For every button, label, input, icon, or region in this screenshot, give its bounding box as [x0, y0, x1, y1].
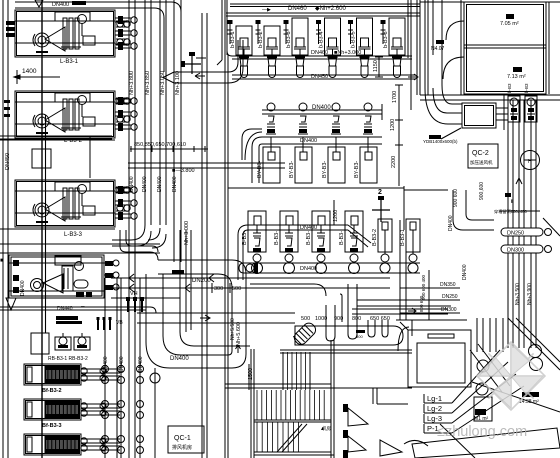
svg-text:≤zhulong.com: ≤zhulong.com — [437, 424, 527, 440]
svg-text:DN400: DN400 — [142, 176, 148, 192]
svg-text:900 600 400: 900 600 400 — [421, 274, 426, 300]
svg-text:7.13 m²: 7.13 m² — [507, 74, 526, 80]
svg-text:DN300: DN300 — [507, 248, 524, 254]
svg-text:B-B3-: B-B3- — [306, 231, 312, 245]
svg-text:B-B3-1: B-B3-1 — [400, 229, 406, 246]
svg-text:Bf-B3-3: Bf-B3-3 — [42, 423, 62, 429]
svg-text:■—3.800: ■—3.800 — [172, 168, 195, 174]
svg-text:╹: ╹ — [510, 199, 514, 207]
svg-text:Nh+3.500: Nh+3.500 — [515, 283, 521, 305]
svg-text:N4.07: N4.07 — [431, 46, 445, 52]
svg-text:b-B3: b-B3 — [524, 83, 529, 93]
svg-text:DN400: DN400 — [300, 138, 317, 144]
svg-text:1400: 1400 — [22, 68, 37, 75]
svg-text:DN350: DN350 — [440, 282, 456, 288]
svg-text:900: 900 — [334, 316, 343, 322]
svg-text:DN400: DN400 — [300, 266, 317, 272]
svg-text:1150: 1150 — [373, 60, 379, 72]
svg-text:800: 800 — [356, 334, 363, 339]
svg-text:DN400: DN400 — [52, 2, 69, 8]
svg-text:Nh+3.800: Nh+3.800 — [129, 71, 135, 95]
svg-text:DN460: DN460 — [311, 50, 328, 56]
svg-text:机房: 机房 — [322, 425, 331, 432]
svg-text:BY-B3-: BY-B3- — [289, 161, 295, 178]
svg-text:Lg-2: Lg-2 — [427, 404, 442, 413]
svg-text:DN400: DN400 — [300, 225, 317, 231]
svg-text:DN400: DN400 — [157, 176, 163, 192]
svg-text:排风机房: 排风机房 — [172, 444, 192, 451]
svg-text:2: 2 — [378, 189, 382, 196]
svg-text:DN400: DN400 — [20, 280, 26, 296]
svg-text:7.05 m²: 7.05 m² — [500, 21, 519, 27]
svg-text:2200: 2200 — [391, 156, 397, 168]
svg-text:DN400: DN400 — [172, 176, 178, 192]
svg-text:DN200: DN200 — [192, 278, 211, 284]
svg-text:BY-B3-: BY-B3- — [322, 161, 328, 178]
svg-text:L-B3-1: L-B3-1 — [60, 59, 79, 65]
svg-text:DN450: DN450 — [311, 74, 328, 80]
svg-text:800: 800 — [352, 316, 361, 322]
svg-text:DN400: DN400 — [448, 215, 454, 231]
svg-text:DN400: DN400 — [462, 264, 468, 280]
svg-text:BY-B3-: BY-B3- — [257, 161, 263, 178]
svg-text:900,600: 900,600 — [479, 182, 485, 200]
svg-text:DN300: DN300 — [441, 307, 457, 313]
svg-text:M1 m²: M1 m² — [474, 416, 489, 422]
svg-text:QC-1: QC-1 — [174, 435, 191, 442]
svg-text:Bf-B3-2: Bf-B3-2 — [42, 388, 62, 394]
svg-text:DN250: DN250 — [507, 231, 524, 237]
svg-text:Lg-3: Lg-3 — [427, 414, 442, 423]
svg-text:QC-2: QC-2 — [472, 150, 489, 157]
svg-text:Nh+5.600: Nh+5.600 — [236, 322, 242, 346]
svg-text:1200: 1200 — [333, 210, 339, 222]
svg-text:900 600: 900 600 — [453, 189, 459, 207]
svg-text:L-B3-3: L-B3-3 — [64, 232, 83, 238]
svg-text:500: 500 — [301, 316, 310, 322]
svg-text:650 650: 650 650 — [370, 316, 390, 322]
svg-text:b-B3: b-B3 — [507, 83, 512, 93]
svg-text:YDB1400x600(b): YDB1400x600(b) — [423, 139, 458, 144]
svg-text:B-B3-: B-B3- — [274, 231, 280, 245]
svg-text:Nh+3.050: Nh+3.050 — [160, 71, 166, 95]
svg-text:1000: 1000 — [315, 316, 327, 322]
svg-text:Nh+5.500: Nh+5.500 — [230, 318, 236, 340]
svg-text:Nh+3.900: Nh+3.900 — [527, 283, 533, 305]
svg-text:加压送风机: 加压送风机 — [470, 159, 493, 166]
svg-text:■: ■ — [0, 258, 4, 264]
svg-text:■Nh+3.000: ■Nh+3.000 — [334, 50, 361, 56]
svg-text:DN460: DN460 — [288, 6, 307, 12]
svg-text:Lg-1: Lg-1 — [427, 394, 442, 403]
svg-text:B-B3-2: B-B3-2 — [372, 229, 378, 246]
svg-text:B-B3-: B-B3- — [339, 231, 345, 245]
svg-text:300: 300 — [214, 286, 223, 292]
svg-text:DN450: DN450 — [5, 153, 11, 170]
svg-text:Nh+3.000: Nh+3.000 — [184, 221, 190, 245]
svg-text:1700: 1700 — [392, 91, 398, 103]
svg-text:Nh+3.850: Nh+3.850 — [145, 71, 151, 95]
svg-text:DN400: DN400 — [312, 105, 331, 111]
svg-text:—▶: —▶ — [262, 7, 271, 13]
svg-text:DN250: DN250 — [442, 294, 458, 300]
svg-text:DN440: DN440 — [57, 306, 73, 312]
svg-text:VH: VH — [130, 291, 138, 297]
svg-text:RB-B3-1 RB-B3-2: RB-B3-1 RB-B3-2 — [48, 356, 88, 362]
svg-text:DN400: DN400 — [170, 356, 189, 362]
svg-text:BY-B3-: BY-B3- — [354, 161, 360, 178]
svg-text:1200: 1200 — [390, 119, 396, 131]
svg-text:500: 500 — [232, 286, 241, 292]
svg-text:◆Nh+2.600: ◆Nh+2.600 — [315, 6, 346, 12]
